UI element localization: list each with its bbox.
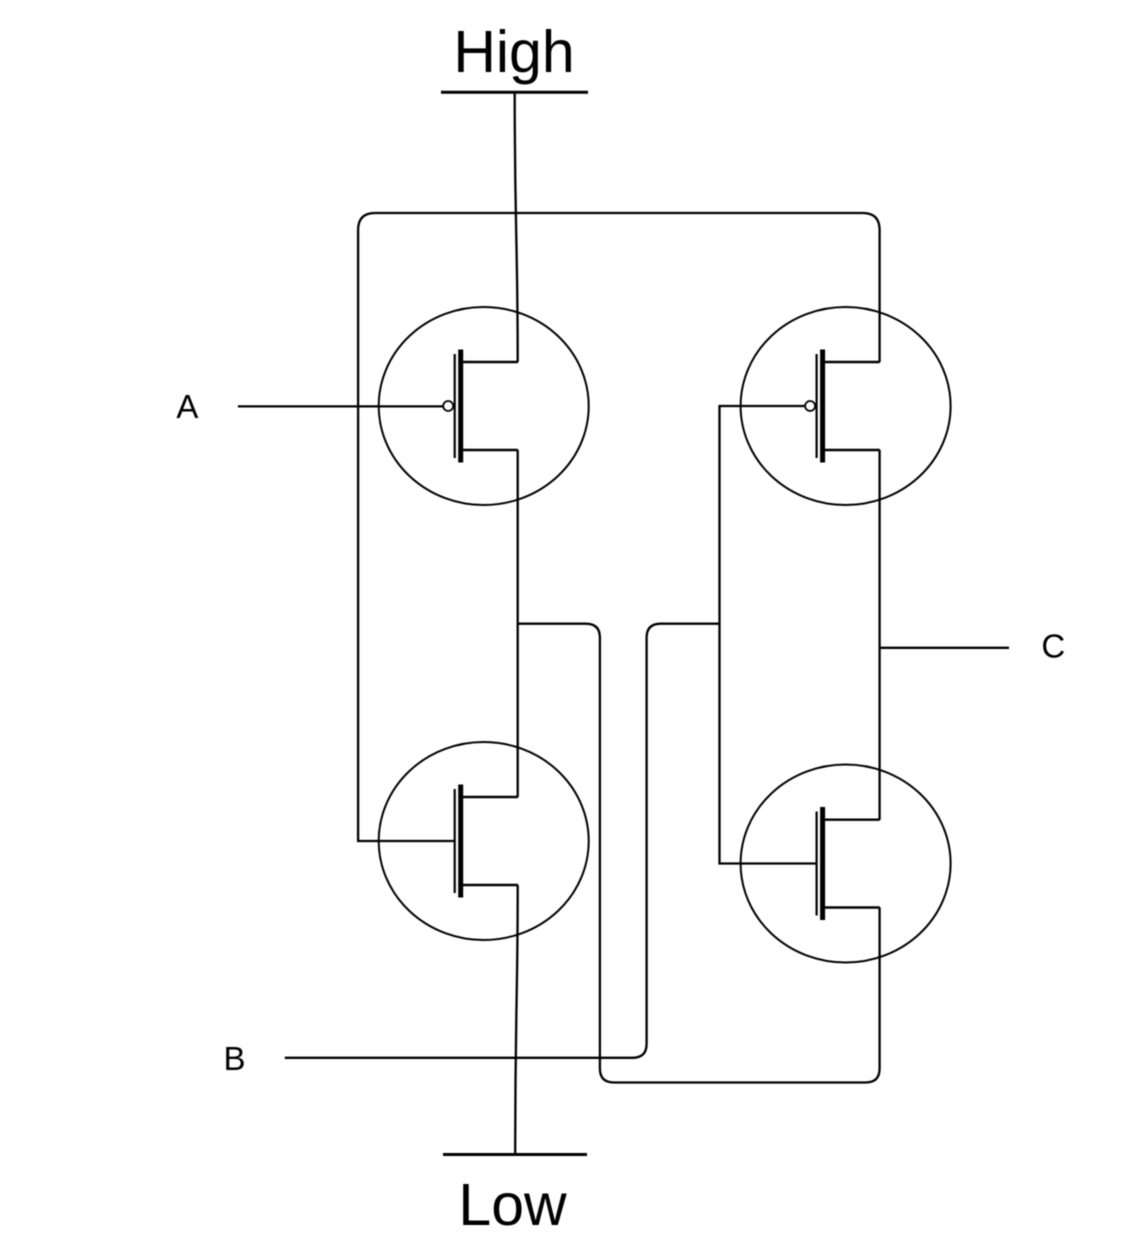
svg-text:B: B bbox=[223, 1040, 245, 1077]
wire Q1 drain to Q3 drain (output column) bbox=[517, 450, 519, 797]
wire gate bus Q2/Q4 bbox=[720, 406, 817, 864]
transistor Q1 PMOS bbox=[379, 307, 589, 505]
wire High rail to Q1 source bbox=[515, 92, 518, 362]
svg-text:A: A bbox=[176, 388, 198, 425]
wire A-net rail: Q3 gate up left side, across top, down to Q2 source bbox=[358, 213, 880, 841]
svg-text:C: C bbox=[1041, 628, 1065, 665]
transistor Q3 NMOS bbox=[379, 742, 589, 940]
wire output C bbox=[880, 647, 1009, 649]
Low supply bar bbox=[443, 1153, 587, 1156]
transistor Q2 PMOS bbox=[741, 307, 951, 505]
wire A to Q1 gate bbox=[238, 405, 443, 407]
wire B to gate bus bbox=[285, 624, 720, 1058]
High supply bar bbox=[441, 91, 588, 94]
wire output node to Q4 source via bottom rail bbox=[518, 624, 880, 1083]
wire Q2 drain to Q4 drain bbox=[878, 450, 880, 820]
svg-text:High: High bbox=[453, 19, 574, 85]
svg-text:Low: Low bbox=[458, 1172, 567, 1238]
transistor Q4 NMOS bbox=[741, 765, 951, 963]
wire Q3 source to Low rail bbox=[515, 885, 518, 1155]
